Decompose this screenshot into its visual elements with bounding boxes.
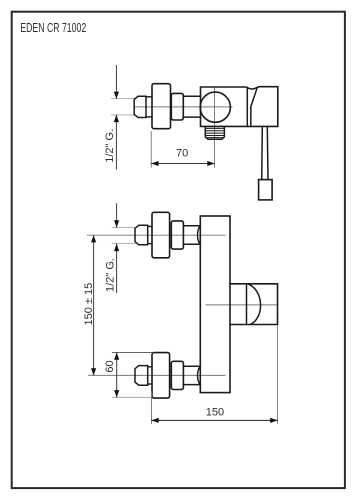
threaded stub: [134, 96, 146, 117]
body (front view): [200, 216, 230, 393]
shower outlet under body: [205, 126, 224, 139]
centerline bottom inlet: [89, 374, 225, 376]
arrowhead up (60): [114, 353, 119, 360]
bottom inlet flange: [152, 353, 170, 399]
dim 70 line: [151, 163, 214, 165]
dim 60 extension lines: [112, 352, 152, 354]
lever knob: [259, 180, 273, 200]
wall flange: [152, 84, 171, 129]
bottom inlet pipe: [183, 365, 200, 367]
handle skirt profile: [251, 89, 257, 127]
centerline handle boss: [206, 304, 276, 306]
bottom inlet connector: [148, 366, 152, 368]
handle boss (front): [230, 284, 278, 325]
top inlet nut: [171, 221, 183, 249]
arrowhead up (1/2G front): [114, 244, 119, 251]
cartridge dome circle: [200, 92, 230, 122]
arrowhead right (70): [207, 161, 214, 166]
top inlet threaded stub: [135, 225, 148, 245]
boss chord line: [246, 284, 248, 325]
svg-text:60: 60: [104, 360, 116, 372]
svg-text:150: 150: [206, 407, 224, 419]
thread extension lines (1/2" G.): [112, 98, 135, 100]
dim 1/2 G (front) leader lines: [116, 204, 118, 227]
top inlet pipe: [183, 225, 200, 227]
dim 150±15 line: [93, 236, 95, 375]
arrowhead left (150): [152, 418, 159, 423]
lever arm: [261, 126, 264, 179]
handle parting line: [246, 88, 248, 127]
top inlet fillet arc on body: [197, 225, 200, 245]
dim 60 line: [116, 353, 118, 397]
top inlet connector: [148, 225, 152, 227]
arrowhead down (150±15): [91, 368, 96, 375]
svg-text:70: 70: [176, 148, 188, 160]
arrowhead down (1/2G front): [114, 220, 119, 227]
svg-text:1/2" G.: 1/2" G.: [104, 129, 116, 163]
centerline vertical (valve axis): [214, 88, 216, 168]
centerline horizontal (inlet axis): [135, 106, 232, 108]
arrowhead up (150±15): [91, 235, 96, 242]
bottom inlet: thread stub: [135, 366, 148, 386]
body (top view): [201, 87, 278, 127]
svg-text:150 ± 15: 150 ± 15: [83, 283, 95, 326]
connector lines stub-flange: [146, 96, 152, 98]
boss dome arc: [248, 284, 260, 324]
bottom inlet nut: [171, 361, 183, 389]
pipe to body: [183, 95, 200, 97]
dim 1/2 G (top view) leader lines: [115, 66, 117, 99]
svg-text:1/2" G.: 1/2" G.: [104, 258, 116, 292]
dim 150 line: [152, 419, 278, 421]
arrowhead left (70): [151, 161, 158, 166]
top inlet: thread extension lines: [112, 227, 135, 229]
nut piece: [171, 93, 183, 120]
arrowhead up: [114, 115, 119, 122]
dim 150 extension lines: [151, 392, 153, 424]
dim 70 extension line: [150, 132, 152, 168]
arrowhead right (150): [270, 418, 277, 423]
arrowhead down: [114, 92, 119, 99]
centerline top inlet: [87, 234, 225, 236]
svg-text:EDEN CR 71002: EDEN CR 71002: [20, 20, 86, 35]
bottom inlet fillet arc on body: [197, 366, 200, 386]
outlet thread lines: [205, 127, 224, 129]
arrowhead down (60): [114, 390, 119, 397]
top inlet flange: [152, 212, 170, 257]
